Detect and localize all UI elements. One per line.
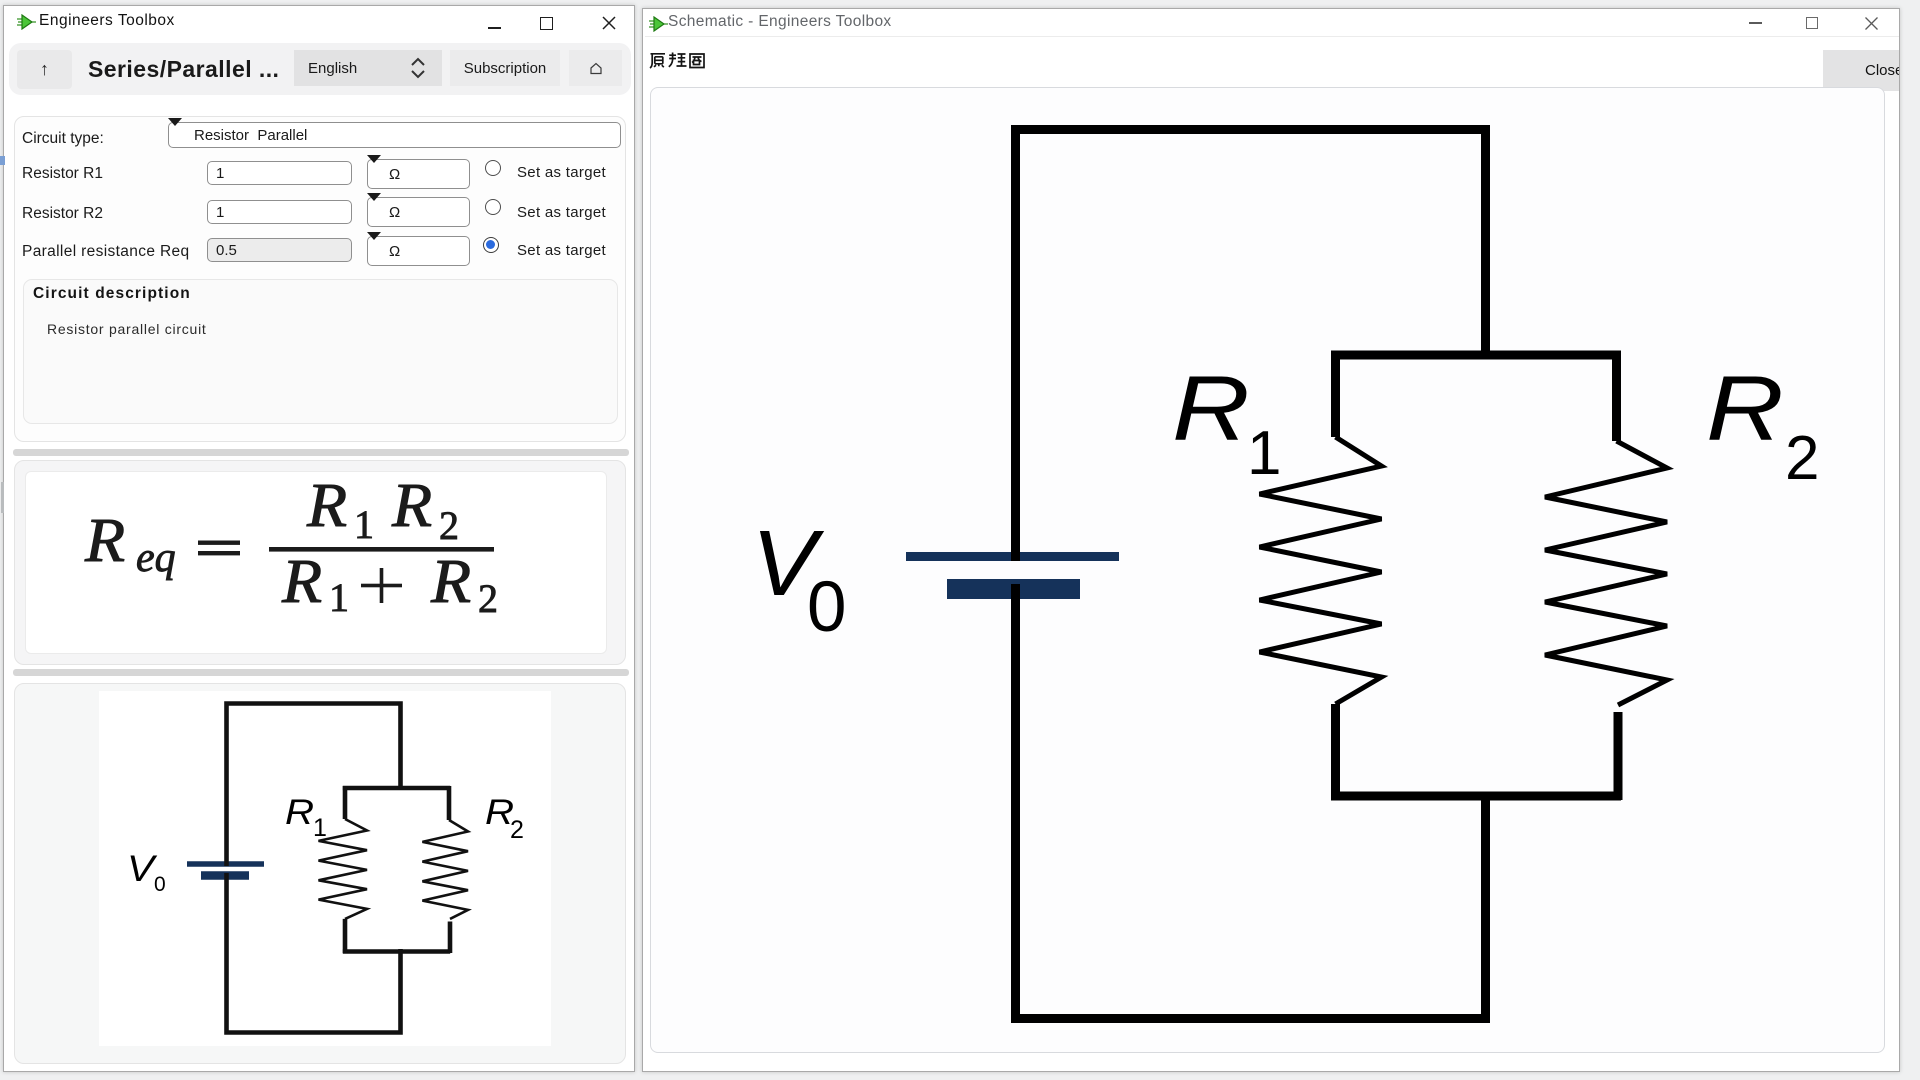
description card: [23, 279, 618, 424]
splitter 1: [13, 449, 629, 456]
tab pane top line: [645, 36, 1901, 37]
svg-text:2: 2: [1785, 424, 1819, 493]
svg-text:R: R: [391, 471, 432, 540]
svg-text:V: V: [127, 849, 157, 890]
splitter 2: [13, 669, 629, 676]
svg-text:1: 1: [1247, 419, 1281, 488]
svg-text:R: R: [84, 506, 125, 575]
battery V0 top plate: [906, 552, 1119, 561]
canvas: [650, 87, 1885, 1053]
wire lower loop: battery- to bottom to R node: [1016, 584, 1486, 1019]
resistor R2 zigzag: [422, 820, 468, 919]
wire upper loop: battery+ to top to R node: [1016, 130, 1486, 562]
node bar top: [343, 786, 450, 791]
resistor R2 zigzag: [1545, 441, 1667, 705]
svg-text:R: R: [285, 792, 314, 831]
title bar: [649, 16, 669, 32]
resistor R2 leads: [449, 786, 450, 953]
battery V0 top plate: [187, 861, 264, 867]
battery V0 bottom plate: [201, 871, 249, 880]
small schematic SVG: [99, 691, 551, 1046]
node bar bottom: [343, 949, 450, 954]
svg-text:eq: eq: [136, 535, 176, 581]
svg-text:0: 0: [807, 568, 847, 647]
schematic card: [14, 683, 626, 1064]
svg-text:2: 2: [510, 816, 524, 844]
formula R_eq = R1R2/(R1+R2): [21, 465, 603, 654]
svg-text:2: 2: [478, 576, 498, 621]
header card: [9, 43, 631, 95]
node bar bottom of parallel pair: [1331, 792, 1621, 801]
svg-text:R: R: [306, 471, 347, 540]
wire upper loop: [227, 704, 401, 867]
left edge scrollbar artifacts: [0, 156, 5, 165]
node bar top of parallel pair: [1331, 351, 1621, 360]
svg-text:R: R: [281, 547, 322, 616]
tab label 原理图 (drawn, CJK not in Liberation): [648, 51, 706, 69]
Close corner button (clipped by window edge): [1823, 50, 1920, 91]
svg-text:R: R: [1706, 357, 1784, 460]
wire lower loop: [227, 873, 401, 1033]
resistor R1 zigzag: [1260, 437, 1382, 704]
resistor R1 zigzag: [319, 819, 368, 919]
battery V0 bottom plate: [947, 579, 1080, 599]
formula card: [14, 460, 626, 665]
svg-text:0: 0: [154, 873, 166, 896]
svg-text:R: R: [430, 547, 471, 616]
svg-text:1: 1: [329, 575, 349, 620]
resistor R2 leads: [1617, 351, 1619, 800]
svg-text:2: 2: [439, 503, 459, 548]
resistor R1 leads: [1331, 351, 1340, 800]
svg-text:1: 1: [354, 502, 374, 547]
big schematic SVG (page-absolute coords): [652, 89, 1882, 1050]
form card: [14, 116, 626, 442]
svg-text:1: 1: [313, 814, 327, 842]
svg-text:R: R: [1172, 357, 1250, 460]
title bar: [17, 14, 37, 30]
resistor R1 leads: [343, 786, 348, 953]
